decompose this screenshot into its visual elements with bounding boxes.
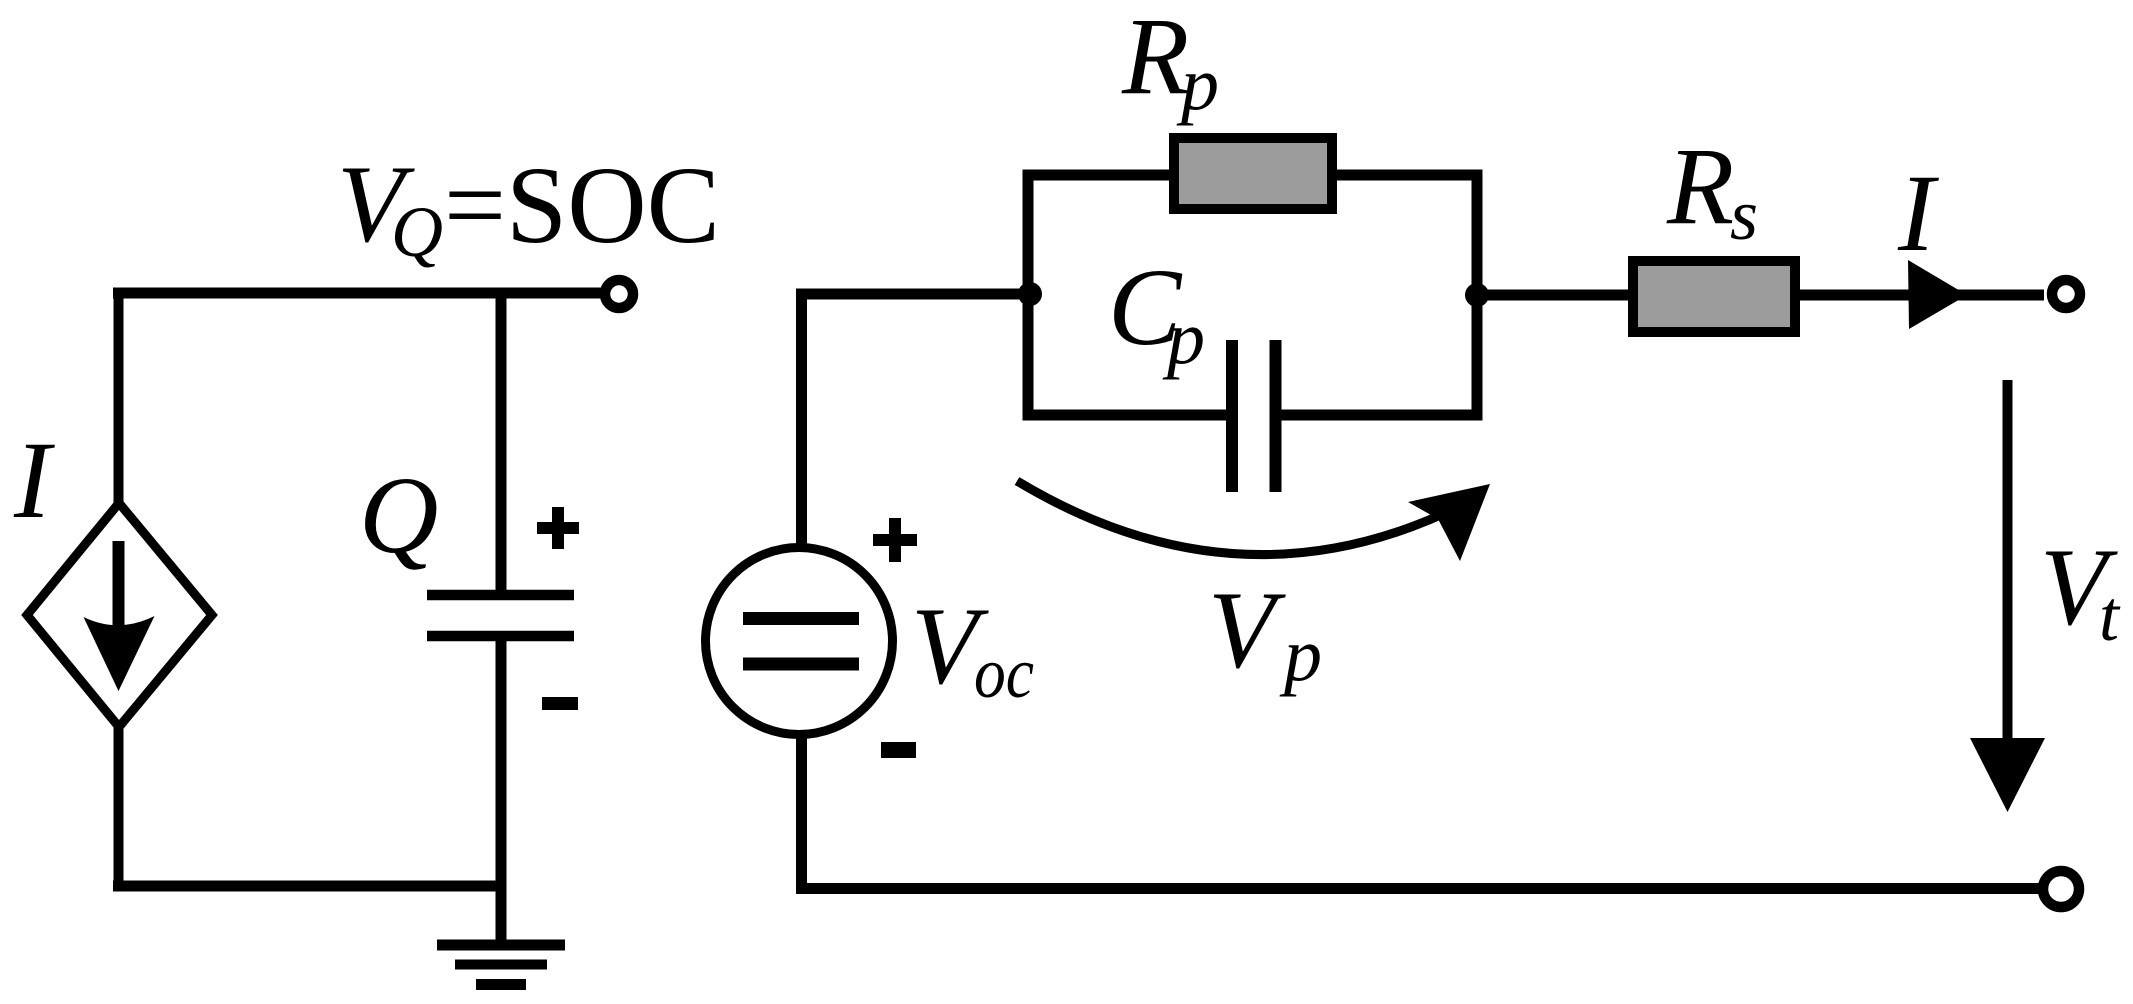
svg-text:=SOC: =SOC [444,144,720,266]
wire: left vertical (top of current source) [114,288,124,508]
wire: main top horizontal to RC [796,289,1033,300]
wire: left vertical (bottom of current source) [114,722,124,891]
plus sign (capacitor Q) [537,507,579,549]
wire: RC loop left vertical [1023,175,1034,415]
Vp arc arrow [1017,481,1490,561]
label Vt [2040,526,2121,656]
wire: capacitor Q bottom lead to ground [496,636,507,940]
svg-text:R: R [1666,125,1734,247]
wire: capacitor Q top lead [496,288,507,595]
Vt arrow [1970,380,2045,812]
current source arrow [84,541,155,691]
node: junction right of RC [1465,283,1489,307]
wire: RC loop right vertical [1472,175,1483,415]
wire: Voc top lead [796,299,807,547]
wire: left circuit top horizontal [113,288,601,299]
voltage source bars [743,619,859,665]
capacitor Cp plates [1232,340,1276,492]
wire: RC loop top rail [1023,170,1483,181]
resistor Rs [1633,261,1795,332]
label Cp [1108,246,1205,380]
svg-text:I: I [13,419,55,541]
node VQ terminal (open circle) [605,280,633,308]
voltage source Voc (circle) [706,548,893,735]
wire: Rs to terminal [1795,290,2044,301]
svg-text:oc: oc [974,633,1034,713]
wire: left circuit bottom horizontal [113,881,501,892]
node: junction left of RC [1018,282,1042,306]
minus sign (capacitor Q) [542,697,578,710]
svg-text:V: V [1208,569,1286,691]
svg-text:R: R [1121,0,1189,117]
label Rp [1121,0,1219,126]
svg-text:t: t [2099,576,2121,656]
wire: RC to Rs [1471,290,1633,301]
terminal (bottom right, open circle) [2043,871,2079,907]
current source I (diamond) [27,503,212,727]
svg-text:s: s [1730,175,1758,255]
svg-text:I: I [1897,152,1939,274]
wire: RC loop bottom rail left [1023,410,1233,421]
label Voc [911,585,1034,713]
terminal (top right, open circle) [2052,280,2080,308]
svg-text:p: p [1162,296,1205,380]
ground [437,945,565,985]
plus sign (Voc) [873,518,917,562]
resistor Rp [1174,138,1332,209]
wire: Voc bottom lead [796,734,807,893]
svg-text:Q: Q [391,192,443,272]
current arrow I [1908,260,1967,329]
minus sign (Voc) [881,742,916,758]
svg-text:p: p [1279,613,1322,697]
label Rs [1666,125,1758,255]
wire: RC loop bottom rail right [1275,410,1483,421]
wire: bottom horizontal (right circuit) [796,883,2041,894]
label VQ=SOC [337,143,720,272]
capacitor Q plates [427,595,574,636]
svg-text:p: p [1176,42,1219,126]
label Vp [1208,569,1322,697]
svg-text:Q: Q [359,454,438,576]
